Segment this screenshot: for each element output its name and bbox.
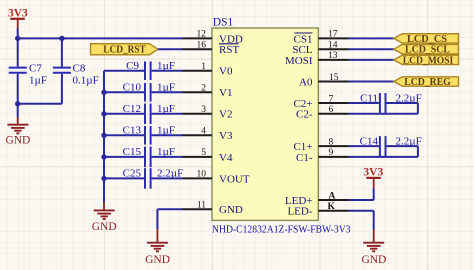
capacitor C9 — [104, 60, 183, 80]
capacitor C25 — [101, 168, 183, 189]
svg-text:DS1: DS1 — [213, 17, 234, 29]
svg-text:2.2µF: 2.2µF — [396, 92, 422, 104]
wire LED+ A to 3V3 — [349, 188, 374, 200]
capacitor C12 — [101, 103, 182, 124]
svg-text:VOUT: VOUT — [219, 173, 250, 185]
svg-text:10: 10 — [197, 170, 207, 180]
svg-text:C8: C8 — [73, 63, 86, 75]
op-amp DS1 body — [212, 17, 351, 236]
capacitor C15 — [101, 146, 182, 167]
svg-text:4: 4 — [201, 127, 206, 137]
svg-text:1µF: 1µF — [157, 146, 175, 158]
svg-text:C9: C9 — [126, 60, 139, 72]
svg-text:2.2µF: 2.2µF — [157, 168, 183, 180]
svg-text:2: 2 — [201, 84, 206, 94]
capacitor C7 — [9, 38, 47, 103]
svg-text:14: 14 — [328, 41, 338, 51]
wire bottom rail C7-C8 — [18, 103, 62, 105]
pin V0 1 — [183, 62, 233, 78]
wire SCL — [349, 48, 394, 50]
svg-text:V2: V2 — [219, 109, 232, 121]
pin C2- 6 — [296, 105, 349, 121]
svg-text:LED-: LED- — [287, 206, 312, 218]
capacitor C14 — [349, 135, 422, 157]
svg-text:LCD_MOSI: LCD_MOSI — [403, 54, 454, 66]
svg-text:17: 17 — [328, 30, 338, 40]
svg-text:1µF: 1µF — [29, 75, 47, 87]
svg-text:1µF: 1µF — [157, 125, 175, 137]
svg-text:GND: GND — [219, 204, 243, 216]
svg-text:RST: RST — [219, 44, 239, 56]
wire CS — [349, 37, 394, 39]
svg-text:2.2µF: 2.2µF — [396, 135, 422, 147]
svg-text:C25: C25 — [123, 168, 142, 180]
svg-text:C12: C12 — [123, 103, 141, 115]
pin LED+ A — [285, 191, 349, 207]
pin C2+ 7 — [293, 94, 348, 110]
port LCD_REG — [394, 76, 459, 88]
ground GND right — [361, 230, 386, 266]
junction top rail at 3V3 stem — [15, 36, 20, 41]
port LCD_RST — [91, 44, 159, 56]
svg-text:1µF: 1µF — [157, 82, 175, 94]
svg-text:V1: V1 — [219, 87, 232, 99]
svg-text:MOSI: MOSI — [285, 55, 313, 67]
ground GND pin 11 — [145, 229, 170, 266]
svg-text:C11: C11 — [360, 92, 378, 104]
svg-text:A: A — [329, 191, 336, 201]
wire MOSI — [349, 59, 394, 61]
ground GND left — [5, 104, 30, 147]
svg-text:GND: GND — [145, 254, 170, 266]
pin GND 11 — [183, 201, 243, 217]
pin A0 15 — [299, 73, 348, 89]
svg-text:1µF: 1µF — [157, 60, 175, 72]
junction top rail at C8 — [59, 36, 64, 41]
svg-text:6: 6 — [329, 105, 334, 115]
capacitor C8 — [53, 38, 99, 103]
svg-text:C7: C7 — [29, 63, 42, 75]
svg-text:C2-: C2- — [296, 109, 313, 121]
svg-text:5: 5 — [201, 148, 206, 158]
wire GND pin 11 — [157, 209, 182, 229]
pin V2 3 — [183, 105, 233, 121]
svg-text:V4: V4 — [219, 152, 233, 164]
svg-text:V3: V3 — [219, 130, 233, 142]
pin C1- 9 — [296, 148, 349, 164]
pin MOSI 13 — [285, 51, 349, 67]
capacitor C10 — [101, 82, 182, 102]
pin CS1 17 — [294, 30, 349, 46]
pin VOUT 10 — [183, 170, 250, 186]
node cap bus vertical — [103, 71, 105, 202]
svg-text:GND: GND — [5, 135, 30, 147]
svg-text:V0: V0 — [219, 66, 233, 78]
svg-text:15: 15 — [329, 73, 339, 83]
svg-text:3: 3 — [201, 105, 206, 115]
svg-text:C10: C10 — [123, 82, 142, 94]
svg-text:NHD-C12832A1Z-FSW-FBW-3V3: NHD-C12832A1Z-FSW-FBW-3V3 — [212, 223, 351, 235]
wire RST — [158, 48, 183, 50]
power port 3V3 left — [8, 8, 28, 39]
svg-text:LCD_RST: LCD_RST — [103, 44, 146, 56]
junction bottom rail — [15, 101, 20, 106]
svg-text:GND: GND — [361, 254, 386, 266]
pin V3 4 — [183, 127, 233, 143]
svg-text:11: 11 — [197, 201, 206, 211]
port LCD_SCL — [394, 44, 459, 56]
svg-text:9: 9 — [329, 148, 334, 158]
svg-text:C13: C13 — [123, 125, 142, 137]
power port 3V3 right — [363, 166, 383, 188]
pin V1 2 — [183, 84, 233, 100]
pin LED- K — [287, 202, 348, 218]
svg-text:C14: C14 — [360, 135, 379, 147]
svg-text:8: 8 — [329, 137, 334, 147]
port LCD_MOSI — [394, 54, 459, 66]
svg-text:C15: C15 — [123, 146, 142, 158]
svg-text:LCD_REG: LCD_REG — [404, 76, 451, 88]
svg-text:C1-: C1- — [296, 152, 313, 164]
svg-text:A0: A0 — [299, 76, 313, 88]
svg-text:7: 7 — [329, 94, 334, 104]
svg-text:K: K — [328, 202, 336, 212]
svg-text:16: 16 — [197, 41, 207, 51]
svg-text:3V3: 3V3 — [363, 166, 383, 178]
svg-text:GND: GND — [92, 221, 117, 233]
wire top rail 3V3 — [18, 37, 183, 39]
port LCD_CS — [394, 33, 459, 45]
svg-text:1: 1 — [201, 62, 206, 72]
pin RST 16 — [183, 41, 240, 57]
svg-text:1µF: 1µF — [157, 103, 175, 115]
svg-text:0.1µF: 0.1µF — [73, 75, 99, 87]
svg-text:13: 13 — [328, 51, 338, 61]
pin SCL 14 — [292, 41, 348, 57]
pin C1+ 8 — [293, 137, 348, 153]
wire LED- K to GND — [349, 211, 374, 230]
ground GND cap bus — [92, 202, 117, 233]
capacitor C11 — [349, 92, 422, 114]
pin VDD 12 — [183, 30, 243, 46]
capacitor C13 — [101, 125, 182, 145]
svg-text:12: 12 — [197, 30, 207, 40]
wire A0 — [349, 81, 394, 83]
pin V4 5 — [183, 148, 233, 164]
